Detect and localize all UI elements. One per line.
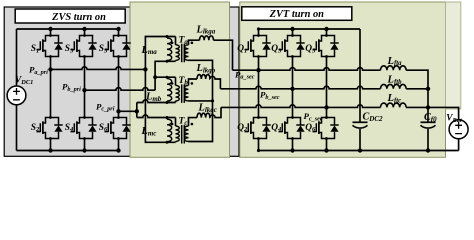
wire secondary bottom rail: [259, 150, 459, 152]
wire primary top rail: [17, 28, 119, 30]
node P_b_sec: [290, 87, 294, 91]
ZVT turn on label box: [242, 7, 352, 20]
wire leg b midsection (primary): [84, 57, 86, 118]
inductor Llkga: [200, 36, 214, 40]
polarity dot Tb secondary: [191, 82, 194, 85]
wire phase b primary: [85, 88, 156, 91]
transistor S3: [71, 34, 97, 58]
junction phase a / delta bus: [143, 67, 147, 71]
wire delta link Ta bottom - Tb top - phase b: [155, 61, 175, 90]
node P_a_sec: [256, 68, 260, 72]
wire Tc top connector: [137, 115, 176, 118]
junction phase c / Tb-Tc link: [135, 109, 139, 113]
svg-text:ZVT turn on: ZVT turn on: [269, 9, 325, 20]
transistor S6: [105, 116, 131, 140]
polarity dot Tb primary: [171, 82, 174, 85]
transistor Q3: [279, 34, 305, 58]
polarity dot Ta secondary: [191, 42, 194, 45]
transistor Q2: [245, 116, 271, 140]
secondary winding Ta: [185, 45, 189, 61]
wire leg a midsection (primary): [50, 57, 52, 118]
transistor Q6: [313, 116, 339, 140]
wire delta link Tb bottom - Tc top - phase c: [137, 100, 176, 103]
polarity dot Ta primary: [171, 42, 174, 45]
junction C_f0 / bottom rail: [426, 148, 430, 152]
wire phase c secondary: [221, 105, 381, 108]
inductor Llkgc: [197, 113, 210, 117]
transistor S1: [37, 34, 63, 58]
junction top rail / leg a: [48, 27, 52, 31]
junction sec top rail / leg a: [257, 27, 260, 30]
junction sec bottom rail / leg c: [324, 148, 328, 152]
wire sec leg b midsection: [292, 57, 294, 118]
inductor Lmb (magnetizing): [167, 79, 172, 102]
wire phase a primary: [51, 67, 146, 70]
node P_b_pri: [82, 88, 86, 92]
node P_c_pri: [116, 109, 120, 113]
wire leg a drain stub (primary): [50, 29, 52, 36]
battery source V_Bat: [449, 120, 468, 151]
transistor Q4: [279, 116, 305, 140]
capacitor C_f0: [427, 129, 429, 151]
wire sec leg a midsection: [258, 57, 260, 118]
polarity dot Tc secondary: [191, 123, 194, 126]
inductor Lma (magnetizing): [167, 38, 172, 61]
wire Llkgb to phase b sec: [210, 76, 221, 88]
wire sec leg a drain stub: [258, 29, 260, 36]
junction bottom rail / leg b: [82, 148, 86, 152]
core Tc: [182, 125, 185, 144]
primary-side gray region background: [4, 7, 239, 156]
core Ta: [182, 44, 185, 63]
transformer Tb: [176, 85, 180, 101]
wire Tb secondary top lead: [189, 79, 198, 85]
wire secondary top rail: [259, 28, 361, 30]
transformer Ta: [176, 45, 180, 61]
wire sec leg c source stub: [326, 139, 328, 151]
junction C_DC2 / bottom rail: [358, 148, 362, 152]
capacitor C_DC2: [359, 29, 361, 151]
core Tb: [182, 84, 185, 103]
junction sec neutral / Tb: [211, 99, 214, 102]
wire phase a secondary: [233, 68, 381, 71]
transformer Tc: [176, 126, 180, 142]
wire primary bottom rail: [17, 150, 119, 152]
junction top rail / leg b: [82, 27, 86, 31]
junction sec bottom rail / leg b: [290, 148, 294, 152]
svg-text:ZVS turn on: ZVS turn on: [51, 12, 106, 23]
wire sec leg b source stub: [292, 139, 294, 151]
transistor Q1: [245, 34, 271, 58]
junction bottom rail / leg a: [48, 148, 52, 152]
inductor Lftc: [381, 103, 407, 107]
secondary winding Tc: [185, 126, 189, 142]
pale strip top-right of ZVT region: [446, 2, 461, 109]
wire sec leg a source stub: [258, 139, 260, 151]
wire leg c midsection (primary): [118, 57, 120, 118]
junction sec top rail / leg c: [324, 27, 328, 31]
polarity dot Tc primary: [171, 123, 174, 126]
wire Lftb to output node: [406, 88, 428, 90]
wire sec leg c drain stub: [326, 29, 328, 36]
wire Ta secondary top lead: [189, 40, 200, 45]
inductor Lmc (magnetizing): [167, 119, 172, 142]
wire sec leg c midsection: [326, 57, 328, 118]
wire sec leg b drain stub: [292, 29, 294, 36]
transistor Q5: [313, 34, 339, 58]
wire Tb secondary bottom lead: [189, 100, 213, 102]
transformer green region background: [130, 2, 230, 157]
wire leg a source stub (primary): [50, 139, 52, 151]
transistor S4: [71, 116, 97, 140]
wire leg b drain stub (primary): [84, 29, 86, 36]
transistor S5: [105, 34, 131, 58]
wire delta bus phase a (Ta top to Tc bottom): [145, 37, 175, 143]
wire phase b secondary: [220, 86, 380, 89]
junction sec bottom rail / leg a: [257, 149, 260, 152]
wire Lfta to output node / C_f0: [406, 70, 428, 122]
wire Tc secondary top lead: [189, 118, 198, 126]
wire leg b source stub (primary): [84, 139, 86, 151]
inductor Lfta: [381, 66, 407, 70]
inductor Llkgb: [197, 75, 210, 79]
wire phase c primary: [119, 110, 137, 112]
junction output / phase b: [426, 87, 430, 91]
junction output / phase c: [426, 105, 430, 109]
junction Tb top / phase b link: [153, 75, 157, 79]
wire leg c source stub (primary): [118, 139, 120, 151]
junction sec top rail / leg b: [290, 27, 294, 31]
wire Llkgc to phase c sec: [210, 107, 221, 117]
voltage source VDC1: [7, 29, 26, 151]
wire leg c drain stub (primary): [118, 29, 120, 36]
wire Llkga to phase a sec: [214, 40, 233, 70]
ZVS turn on label box: [15, 9, 125, 23]
node P_c_sec: [324, 105, 328, 109]
wire Lftc to output node and V_Bat: [406, 107, 459, 119]
junction bottom rail / leg c: [116, 148, 120, 152]
transistor S2: [37, 116, 63, 140]
wire Tb top connector: [155, 76, 175, 78]
secondary winding Tb: [185, 85, 189, 101]
wire secondary neutral bus: [189, 60, 213, 141]
ZVT green region background: [240, 2, 446, 157]
node P_a_pri: [48, 67, 52, 71]
inductor Lftb: [381, 84, 407, 88]
junction top rail / leg c: [116, 27, 120, 31]
